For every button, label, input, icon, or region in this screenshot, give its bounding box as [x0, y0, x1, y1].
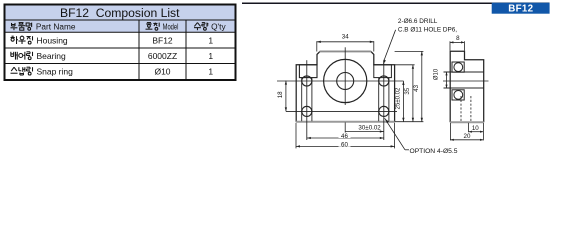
svg-text:Snap ring: Snap ring [36, 67, 73, 77]
svg-text:BF12: BF12 [508, 4, 533, 15]
svg-text:18: 18 [277, 91, 284, 98]
svg-text:Part Name: Part Name [36, 23, 76, 32]
svg-text:20: 20 [464, 133, 471, 140]
svg-text:Housing: Housing [36, 36, 67, 46]
svg-text:10: 10 [472, 125, 479, 132]
svg-text:1: 1 [208, 67, 213, 77]
svg-text:2-Ø6.6 DRILL: 2-Ø6.6 DRILL [398, 18, 438, 25]
svg-text:OPTION 4-Ø5.5: OPTION 4-Ø5.5 [410, 148, 458, 155]
svg-text:46: 46 [341, 133, 348, 140]
svg-text:Q'ty: Q'ty [211, 23, 226, 32]
svg-text:35: 35 [404, 87, 411, 94]
svg-text:C.B Ø11 HOLE DP6,: C.B Ø11 HOLE DP6, [398, 26, 457, 33]
svg-text:BF12: BF12 [152, 36, 173, 46]
svg-text:43: 43 [413, 84, 420, 91]
svg-text:34: 34 [342, 34, 349, 41]
svg-text:Ø10: Ø10 [434, 68, 440, 80]
svg-text:Model: Model [163, 23, 179, 32]
svg-text:Bearing: Bearing [36, 51, 66, 61]
svg-text:25±0.02: 25±0.02 [396, 87, 402, 109]
svg-text:6000ZZ: 6000ZZ [148, 51, 177, 61]
svg-text:8: 8 [456, 35, 460, 42]
svg-text:60: 60 [341, 141, 348, 148]
svg-text:1: 1 [208, 51, 213, 61]
svg-text:30±0.02: 30±0.02 [358, 125, 381, 132]
svg-text:Ø10: Ø10 [154, 67, 170, 77]
svg-text:BF12 Composion List: BF12 Composion List [60, 6, 180, 20]
svg-text:1: 1 [208, 36, 213, 46]
